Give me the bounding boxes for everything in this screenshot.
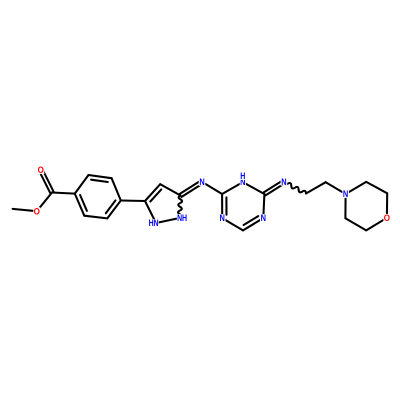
triazine ring bond N1-C2 xyxy=(222,182,243,194)
atom label N (triazine N5) xyxy=(260,214,267,224)
triazine C2=N3 double bond xyxy=(222,194,226,218)
atom label NH (triazine N1-H) xyxy=(240,171,246,187)
exocyclic double bond C=N (left linker) xyxy=(180,180,203,197)
svg-text:H: H xyxy=(182,213,187,223)
benzene ring double bond (right) xyxy=(106,200,121,218)
bond linker N to triazine C2 xyxy=(202,182,222,194)
benzene ring bond xyxy=(84,216,107,219)
svg-text:N: N xyxy=(199,178,204,188)
atom label HN (pyrazole N1-H) xyxy=(148,218,158,228)
svg-text:H: H xyxy=(240,171,245,181)
wavy bond N-CH2 (undefined stereo) xyxy=(284,182,306,194)
wavy bond C-NH (pyrazole, undefined stereo) xyxy=(178,196,182,219)
svg-text:N: N xyxy=(220,214,225,224)
svg-text:H: H xyxy=(149,218,154,228)
atom label N (triazine N3) xyxy=(219,214,226,224)
atom label O (ester oxygen) xyxy=(33,206,40,216)
morpholine ring bond xyxy=(345,218,366,230)
triazine ring bond C6-N1 xyxy=(243,182,265,194)
atom label N (imine linker left) xyxy=(199,178,206,188)
exocyclic double bond C=N (right linker) xyxy=(264,180,285,195)
double bond C=O (carbonyl) xyxy=(39,169,53,193)
bond CH3-O (methyl to ester oxygen) xyxy=(13,209,37,211)
bond carbonyl C to benzene ring xyxy=(52,193,75,194)
bond CH2-CH2 xyxy=(306,182,326,193)
morpholine ring bond xyxy=(344,194,346,218)
pyrazole N-N bond xyxy=(156,218,180,223)
triazine C4=N5 double bond xyxy=(243,216,263,230)
atom label N (morpholine nitrogen) xyxy=(342,190,349,200)
svg-text:N: N xyxy=(281,177,286,187)
svg-text:N: N xyxy=(261,214,266,224)
svg-text:N: N xyxy=(343,190,348,200)
atom label NH (pyrazole N2-H) xyxy=(177,213,187,223)
pyrazole C=C double bond xyxy=(145,184,161,201)
bond O-C (ester oxygen to carbonyl carbon) xyxy=(37,193,52,212)
svg-text:N: N xyxy=(153,218,158,228)
benzene ring bond xyxy=(75,175,89,194)
bond CH2 to morpholine N xyxy=(326,182,346,194)
pyrazole ring bond xyxy=(145,201,156,223)
pyrazole ring bond xyxy=(160,184,180,195)
benzene ring double bond (left) xyxy=(75,194,87,216)
morpholine ring bond xyxy=(386,193,388,218)
benzene ring bond xyxy=(112,178,121,200)
bond benzene to pyrazole xyxy=(121,199,145,202)
morpholine ring bond xyxy=(366,218,387,231)
svg-text:O: O xyxy=(34,206,41,216)
atom label N (imine linker right) xyxy=(281,177,288,187)
atom label O (carbonyl oxygen) xyxy=(37,165,44,175)
atom label O (morpholine oxygen) xyxy=(383,213,390,223)
svg-text:O: O xyxy=(38,165,45,175)
benzene ring double bond (top) xyxy=(89,175,112,182)
triazine ring bond N3-C4 xyxy=(222,218,243,230)
morpholine ring bond xyxy=(366,182,387,193)
morpholine ring bond xyxy=(346,182,367,194)
triazine ring bond N5-C6 xyxy=(263,194,264,218)
svg-text:O: O xyxy=(384,213,391,223)
